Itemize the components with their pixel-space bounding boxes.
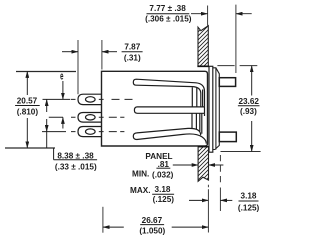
dim 23.62 extension lines [217, 66, 260, 152]
svg-text:7.87: 7.87 [124, 43, 140, 52]
svg-text:23.62: 23.62 [238, 97, 259, 106]
svg-text:(.810): (.810) [17, 108, 39, 117]
dim 8.38 label [53, 148, 55, 160]
dim 3.18 right arrows [220, 199, 232, 201]
pin 1 terminal [78, 94, 102, 104]
pin 1 centerline [71, 98, 133, 100]
dim 7.87 arrows [62, 51, 78, 53]
dim 7.77 arrows [191, 13, 208, 15]
panel section bottom [190, 134, 216, 196]
dim 23.62 arrows [251, 66, 253, 96]
svg-text:.81: .81 [158, 160, 170, 169]
dim pin1-pin3 [46, 99, 48, 112]
contact finger top [133, 79, 204, 107]
svg-text:(.125): (.125) [153, 195, 175, 204]
dim 20.57 dimension line [26, 71, 28, 95]
connector body outline [102, 71, 208, 146]
dim 20.57 extension lines [5, 72, 76, 149]
pin 2 terminal [78, 113, 102, 123]
svg-text:3.18: 3.18 [155, 185, 171, 194]
bezel [213, 68, 220, 150]
contact support bars [192, 87, 205, 134]
dim 7.87 extension lines [78, 40, 102, 94]
pin 3 terminal [78, 127, 102, 137]
pin 3 eyelet [86, 129, 96, 134]
svg-text:3.18: 3.18 [241, 192, 257, 201]
dim 7.77 extension lines [208, 5, 236, 73]
contact finger bottom [133, 128, 206, 143]
svg-text:8.38 ± .38: 8.38 ± .38 [57, 151, 94, 160]
dim .81 arrows [173, 164, 199, 166]
svg-text:(.306 ± .015): (.306 ± .015) [145, 15, 192, 24]
contact finger middle [134, 107, 204, 113]
svg-text:26.67: 26.67 [142, 216, 163, 225]
svg-text:(1.050): (1.050) [139, 227, 165, 236]
svg-text:MAX.: MAX. [130, 186, 150, 195]
dim max arrow [189, 199, 208, 201]
tab bottom [219, 132, 236, 142]
bezel face extension dashed [219, 155, 221, 186]
panel section top [190, 14, 216, 92]
svg-text:(.032): (.032) [152, 171, 174, 180]
pin 1 eyelet [86, 97, 96, 102]
tab top [219, 78, 235, 87]
mounting flange [209, 66, 213, 152]
svg-text:(.125): (.125) [238, 204, 260, 213]
pin centerline extensions left [42, 99, 70, 131]
dim e arrow up [62, 117, 64, 128]
svg-text:7.77 ± .38: 7.77 ± .38 [149, 4, 186, 13]
pin 2 eyelet [86, 115, 96, 120]
dim 26.67 extension line left [102, 207, 104, 233]
svg-text:(.93): (.93) [240, 107, 257, 116]
dim e arrow down [62, 81, 64, 99]
svg-text:(.33 ± .015): (.33 ± .015) [55, 163, 97, 172]
panel rear face extension [207, 185, 209, 233]
pin 2 centerline [71, 116, 124, 118]
svg-text:(.31): (.31) [124, 53, 141, 62]
dim 26.67 arrows [103, 226, 124, 228]
svg-text:MIN.: MIN. [132, 170, 149, 179]
svg-text:20.57: 20.57 [17, 97, 38, 106]
pin 3 centerline [71, 131, 124, 133]
svg-text:e: e [60, 69, 63, 81]
